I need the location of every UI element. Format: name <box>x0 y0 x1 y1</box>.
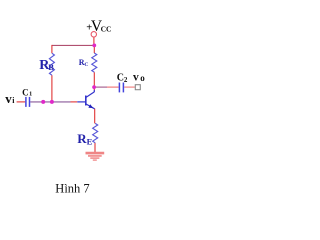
svg-text:2: 2 <box>124 76 128 84</box>
svg-text:v: v <box>5 91 12 106</box>
svg-text:C: C <box>22 87 29 97</box>
svg-text:B: B <box>48 62 54 72</box>
svg-text:o: o <box>140 73 145 83</box>
svg-text:1: 1 <box>29 91 32 98</box>
svg-text:Hình 7: Hình 7 <box>55 182 89 196</box>
svg-text:v: v <box>133 72 139 84</box>
svg-text:C: C <box>84 62 88 68</box>
svg-text:CC: CC <box>101 25 112 34</box>
svg-text:E: E <box>87 136 93 146</box>
svg-text:C: C <box>117 73 124 84</box>
